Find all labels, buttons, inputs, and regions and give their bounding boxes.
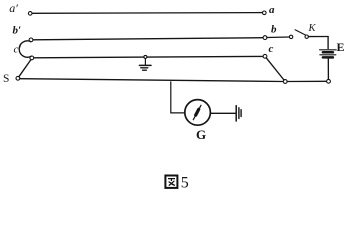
label K xyxy=(308,23,317,34)
wire c terminal slant to bottom junction xyxy=(266,58,284,80)
switch K right contact xyxy=(305,35,308,38)
earth symbol right of G (rotated) xyxy=(236,106,241,121)
switch K left contact xyxy=(289,35,292,38)
wire ground stem xyxy=(144,59,146,65)
wire junction to battery bottom corner xyxy=(287,80,326,82)
svg-text:c: c xyxy=(269,43,274,55)
wire G to earth xyxy=(211,112,236,114)
node junction c-drop on bottom line xyxy=(283,80,287,84)
label a' xyxy=(9,1,18,15)
label S xyxy=(3,73,9,85)
wire bottom line from S xyxy=(20,79,283,82)
galvanometer G circle xyxy=(185,100,211,126)
svg-text:G: G xyxy=(196,127,206,142)
terminal a (open circle) xyxy=(263,11,267,15)
label a xyxy=(269,4,275,16)
wire corner down to battery + xyxy=(327,37,329,49)
svg-text:b′: b′ xyxy=(13,25,22,37)
svg-text:b: b xyxy=(271,24,277,36)
ground (earth) symbol on line c xyxy=(139,65,151,70)
svg-text:E: E xyxy=(337,40,345,54)
battery E cell2 short plate xyxy=(323,56,333,59)
jumper arc b' to c' xyxy=(19,41,31,57)
label c' xyxy=(14,44,22,56)
wire b to switch xyxy=(267,36,289,39)
battery E cell1 long plate xyxy=(320,49,337,51)
label b' xyxy=(13,25,22,37)
svg-text:K: K xyxy=(308,23,317,34)
terminal a' (open circle) xyxy=(28,12,32,16)
wire switch to corner xyxy=(308,36,328,38)
label c xyxy=(269,43,274,55)
node bottom-right corner xyxy=(327,79,331,83)
label G xyxy=(196,127,206,142)
wire battery - down to corner xyxy=(327,59,329,80)
terminal b' (open circle) xyxy=(29,38,33,42)
terminal c (open circle) xyxy=(263,54,267,58)
node ground tap on line c xyxy=(144,55,147,58)
terminal c' (open circle) xyxy=(30,56,34,60)
svg-text:5: 5 xyxy=(181,174,189,191)
label E xyxy=(337,40,345,54)
label b xyxy=(271,24,277,36)
switch K blade (open) xyxy=(295,30,306,35)
wire line a'-a xyxy=(32,12,263,15)
terminal S (open circle) xyxy=(16,76,20,80)
wire tap down from bottom line to galvanometer xyxy=(171,82,185,113)
svg-text:a′: a′ xyxy=(9,1,18,15)
battery E cell2 long plate xyxy=(320,54,336,56)
battery E cell1 short plate xyxy=(323,51,333,54)
terminal b (node circle) xyxy=(263,36,267,40)
wire line b'-b xyxy=(33,38,263,40)
galvanometer bolt symbol xyxy=(193,105,201,119)
caption glyph 图 (drawn) xyxy=(165,176,177,188)
svg-text:S: S xyxy=(3,73,9,85)
svg-text:a: a xyxy=(269,4,275,16)
caption text 5 xyxy=(181,174,189,191)
wire line c'-c xyxy=(34,56,263,57)
svg-text:c′: c′ xyxy=(14,44,22,56)
wire S to c' (slanted) xyxy=(19,60,31,77)
